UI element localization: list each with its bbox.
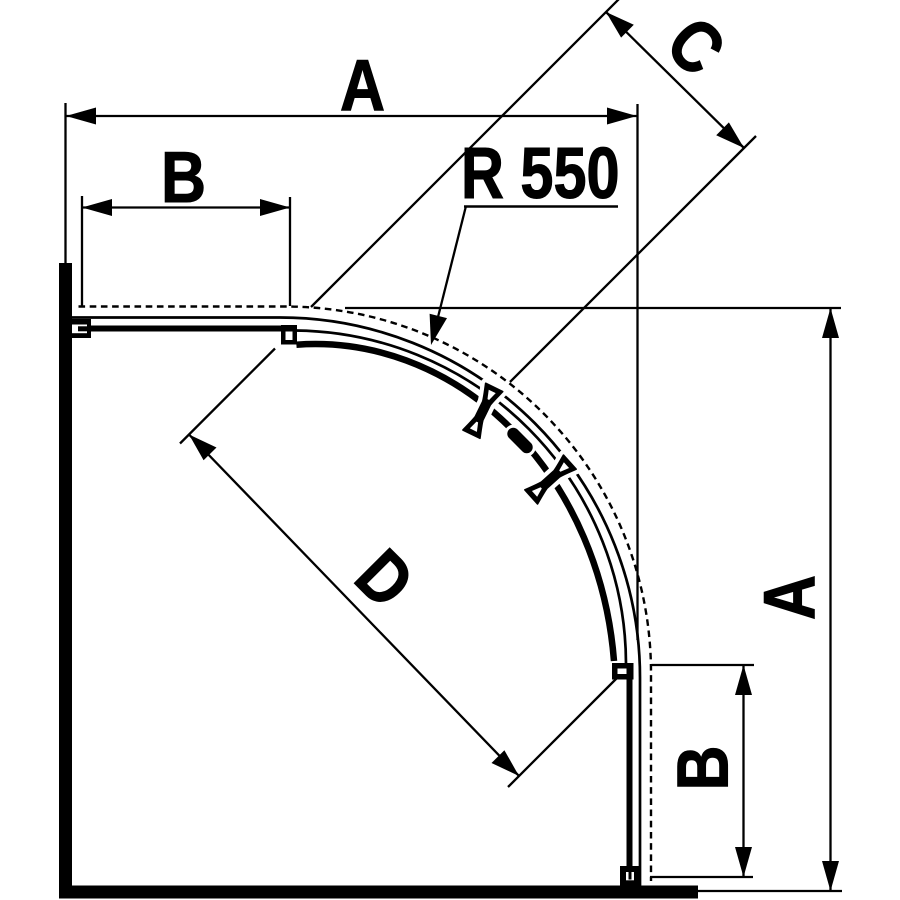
svg-text:A: A <box>750 575 830 620</box>
dimension B top-left: extension line left <box>81 196 83 306</box>
dimension B top-left: arrow right <box>260 199 290 216</box>
wall profile bracket top-left <box>72 319 91 338</box>
dimension D: arrow lower <box>492 750 520 776</box>
svg-text:B: B <box>161 138 206 218</box>
dimension D: dimension line <box>189 435 519 777</box>
dimension B right: dimension line <box>742 665 744 877</box>
dimension C: extension line lower <box>510 136 756 382</box>
dimension A right: extension line top <box>345 307 841 309</box>
door handle 2 <box>525 455 576 504</box>
dimension B right: extension line bottom <box>650 876 753 878</box>
dimension B top-left: extension line right <box>289 197 291 306</box>
svg-text:R 550: R 550 <box>461 133 620 214</box>
dimension A top: extension line left <box>64 103 66 263</box>
dimension A top: arrow left <box>66 108 96 125</box>
dimension D: arrow upper <box>189 435 217 461</box>
dimension A top: extension line right <box>636 104 638 640</box>
dimension A top: arrow right <box>607 108 637 125</box>
door handle 1 <box>463 383 503 438</box>
dimension B right: extension line top <box>652 664 755 666</box>
dimension D: extension line upper <box>180 349 275 444</box>
dimension C: extension line upper <box>311 0 619 307</box>
dimension C: arrow upper <box>606 12 634 38</box>
thick curved door arc <box>296 344 614 661</box>
right fixed panel <box>627 664 633 866</box>
door stop blob <box>505 425 535 455</box>
dimension A top: dimension line <box>66 115 637 117</box>
dimension A right: arrow top <box>822 308 839 338</box>
outer thin rail <box>72 318 640 888</box>
door end bracket <box>612 663 634 680</box>
top fixed panel <box>78 326 283 332</box>
R 550 leader arrowhead <box>430 314 447 345</box>
dimension A right: dimension line <box>829 308 831 891</box>
dimension C: arrow lower <box>716 122 744 148</box>
door start bracket <box>281 325 297 345</box>
R 550 underline <box>464 205 618 208</box>
svg-text:A: A <box>340 46 385 126</box>
dimension B top-left: arrow left <box>82 199 112 216</box>
wall profile bracket bottom-right <box>620 866 639 887</box>
dimension C: dimension line <box>606 12 744 148</box>
dimension D: extension line lower <box>508 677 618 787</box>
svg-text:B: B <box>663 745 743 790</box>
dimension A right: arrow bottom <box>822 861 839 891</box>
inner thin rail <box>296 331 627 664</box>
R 550 leader line <box>436 206 466 325</box>
dimension B right: arrow bottom <box>735 847 752 877</box>
dimension B right: arrow top <box>735 665 752 695</box>
bottom wall <box>59 886 698 899</box>
dimension B top-left: dimension line <box>82 206 290 208</box>
left wall <box>59 263 72 898</box>
dashed tray rim <box>79 307 652 882</box>
dimension A right: extension line bottom <box>698 890 842 892</box>
